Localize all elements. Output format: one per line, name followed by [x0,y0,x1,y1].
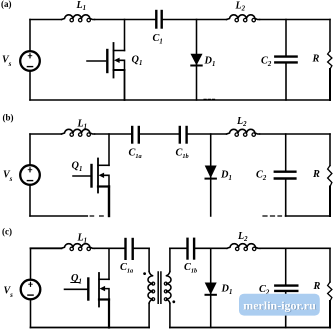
wire top-left (c) [31,247,62,249]
svg-text:L1: L1 [76,0,87,12]
inductor L2 (a) [227,15,260,22]
resistor R (c) [328,248,332,327]
svg-text:L1: L1 [77,119,88,131]
node dots artifact (a) [204,98,215,100]
diode D1 (c) [206,248,216,327]
svg-text:C1b: C1b [184,262,197,275]
inductor L2 (b) [227,129,260,136]
capacitor C2 (b) [275,134,296,216]
svg-text:C1: C1 [153,33,163,46]
svg-text:Q1: Q1 [72,161,83,174]
capacitor C1 (a) [156,11,161,28]
svg-text:L2: L2 [235,1,246,13]
wire bottom dashes right (b) [263,215,282,217]
wire top-left (b) [30,133,62,135]
wire bottom (a) [30,99,330,101]
wire bottom left (c) [31,327,150,329]
transformer primary dot (c) [143,272,146,275]
capacitor C1b (b) [180,127,187,143]
capacitor C1b (c) [188,239,195,259]
transistor Q1 (a) [87,20,125,101]
svg-text:merlin-igor.ru: merlin-igor.ru [243,298,316,312]
transformer primary lead top (c) [148,248,150,271]
wire top mid (b) [95,133,132,135]
svg-text:R: R [312,54,320,65]
transformer secondary winding (c) [164,272,171,304]
wire bottom right (b) [286,215,331,217]
svg-text:D1: D1 [220,170,232,183]
wire top mid2 (c) [195,247,227,249]
capacitor C2 (c) [275,248,297,327]
diode D1 (a) [191,20,201,101]
svg-text:C2: C2 [256,170,267,183]
svg-text:(a): (a) [1,0,12,9]
svg-text:L2: L2 [236,116,247,128]
wire top mid (a) [95,19,156,21]
wire top mid (c) [95,247,125,249]
wire bottom dashes left (b) [90,215,103,217]
capacitor C1a (c) [126,239,133,259]
svg-text:Q1: Q1 [71,273,82,286]
svg-text:C1a: C1a [120,262,133,275]
svg-text:R: R [313,281,321,292]
wire bottom left (b) [30,215,87,217]
wire secondary to C1b (c) [170,247,186,249]
source Vs (a) [20,51,40,71]
inductor L1 (c) [62,244,95,251]
wire bottom right (c) [170,327,330,329]
svg-text:Vs: Vs [4,286,14,300]
svg-text:L2: L2 [237,231,248,243]
transformer primary lead bottom (c) [148,303,150,327]
source Vs (b) [20,165,40,185]
wire top-left (a) [30,19,62,21]
svg-text:D1: D1 [221,284,233,297]
wire left (b) [29,134,31,216]
svg-text:(c): (c) [2,226,12,236]
transformer core (c) [158,272,161,303]
svg-text:(b): (b) [3,112,14,122]
wire left (a) [29,20,31,101]
svg-text:L1: L1 [77,233,88,245]
transformer secondary lead top (c) [169,248,171,271]
svg-text:C1a: C1a [129,148,142,161]
svg-text:C1b: C1b [176,148,189,161]
svg-text:C2: C2 [261,56,272,69]
wire top right (b) [260,133,331,135]
watermark merlin-igor.ru [239,294,320,316]
wire C1a to transformer (c) [134,247,149,249]
svg-text:Vs: Vs [3,170,13,184]
label Q1 underline (c) [71,282,80,284]
transformer secondary lead bottom (c) [169,303,171,327]
wire between caps (b) [140,133,179,135]
capacitor C1a (b) [132,127,139,143]
svg-text:Vs: Vs [2,55,12,69]
transformer primary winding (c) [148,272,155,304]
source Vs (c) [21,280,41,300]
inductor L1 (b) [62,129,95,136]
wire top mid2 (b) [188,133,227,135]
diode D1 (b) [206,134,216,216]
capacitor C2 (a) [275,20,296,101]
wire top right (a) [260,19,331,21]
svg-text:R: R [312,169,320,180]
transistor Q1 (b) [73,134,109,216]
inductor L2 (c) [227,244,260,251]
resistor R (b) [328,134,332,216]
resistor R (a) [328,20,332,101]
wire top mid2 (a) [163,19,227,21]
wire top right (c) [260,247,330,249]
transistor Q1 (c) [65,248,110,327]
svg-text:D1: D1 [204,56,216,69]
inductor L1 (a) [62,15,95,22]
transformer secondary dot (c) [172,300,175,303]
wire left (c) [30,248,32,327]
svg-text:Q1: Q1 [132,55,143,68]
